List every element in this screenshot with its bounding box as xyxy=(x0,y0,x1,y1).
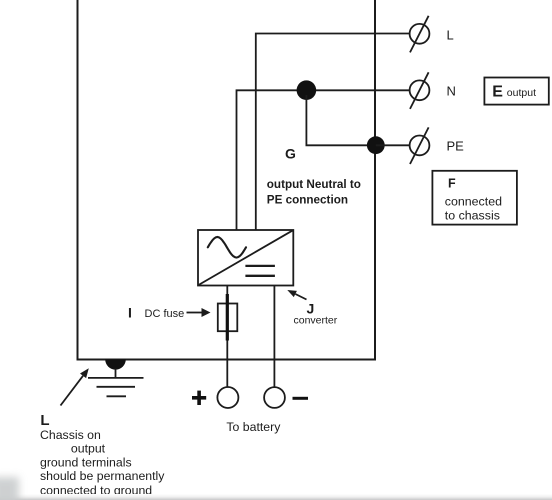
converter DC symbol lines xyxy=(245,266,275,276)
svg-text:output: output xyxy=(71,442,106,456)
callout box E output xyxy=(484,78,548,105)
svg-text:Chassis on: Chassis on xyxy=(40,428,101,442)
callout box F connected to chassis xyxy=(432,171,517,225)
converter diagonal xyxy=(199,230,293,285)
svg-text:PE connection: PE connection xyxy=(267,194,348,207)
label plus xyxy=(192,391,206,405)
terminal L xyxy=(410,16,430,53)
svg-text:To battery: To battery xyxy=(226,420,281,434)
svg-text:connected: connected xyxy=(445,195,502,209)
converter U1 box xyxy=(198,230,293,286)
svg-text:PE: PE xyxy=(447,139,465,154)
svg-text:N: N xyxy=(447,83,456,98)
label minus xyxy=(293,397,309,400)
svg-text:DC fuse: DC fuse xyxy=(145,308,185,320)
wire L: converter top to L terminal xyxy=(256,34,410,231)
battery - terminal circle xyxy=(264,387,285,408)
svg-text:E: E xyxy=(492,84,503,101)
bottom window-edge artifact xyxy=(0,494,552,500)
converter AC sine symbol xyxy=(208,237,246,258)
ground symbol xyxy=(88,359,144,396)
svg-text:to chassis: to chassis xyxy=(445,209,500,223)
fuse thick element xyxy=(226,294,229,341)
svg-text:should be permanently: should be permanently xyxy=(40,469,165,483)
label output Neutral to PE connection xyxy=(267,178,361,207)
svg-text:ground terminals: ground terminals xyxy=(40,455,132,469)
wire converter bottom-left to + terminal xyxy=(226,286,228,388)
wire PE: chassis junction to PE terminal xyxy=(376,144,410,146)
svg-text:L: L xyxy=(40,412,49,429)
svg-text:G: G xyxy=(285,146,296,162)
chassis enclosure right edge xyxy=(374,0,376,360)
wire N: converter top to N terminal xyxy=(237,90,410,230)
chassis enclosure left edge xyxy=(77,0,79,360)
chassis enclosure bottom edge xyxy=(77,359,377,361)
svg-text:F: F xyxy=(448,177,456,191)
svg-text:L: L xyxy=(447,28,454,43)
terminal N xyxy=(410,72,430,109)
ground arrow xyxy=(61,368,89,405)
label L chassis note xyxy=(40,412,165,497)
label I DC fuse xyxy=(128,305,211,321)
svg-text:converter: converter xyxy=(294,315,338,327)
svg-text:output Neutral to: output Neutral to xyxy=(267,178,361,191)
wire neutral-to-PE link xyxy=(306,95,375,145)
battery + terminal circle xyxy=(217,387,238,408)
node PE-chassis junction dot xyxy=(367,136,385,154)
terminal PE xyxy=(410,127,430,164)
wire converter bottom-right to - terminal xyxy=(273,286,275,388)
fuse F1 body xyxy=(218,304,238,332)
label J converter with arrow xyxy=(287,290,337,327)
svg-text:output: output xyxy=(507,87,536,99)
node N junction dot xyxy=(297,80,317,100)
svg-text:I: I xyxy=(128,305,132,321)
